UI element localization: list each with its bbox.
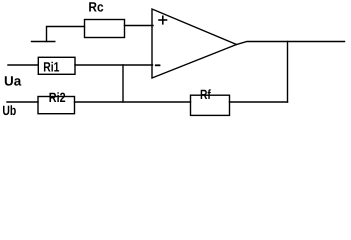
ground — [32, 41, 55, 43]
svg-text:Ri1: Ri1 — [43, 59, 59, 74]
wire — [230, 101, 288, 103]
wire — [75, 101, 191, 103]
resistor Rf — [191, 95, 230, 115]
wire — [237, 42, 345, 45]
wire — [7, 101, 38, 103]
svg-text:Ri2: Ri2 — [49, 90, 66, 105]
wire — [75, 64, 153, 66]
svg-text:Ub: Ub — [2, 103, 16, 118]
svg-text:Rf: Rf — [200, 87, 211, 102]
wire — [47, 27, 85, 42]
wire — [125, 25, 154, 27]
node junction — [122, 65, 124, 102]
op-amp U1 — [152, 9, 237, 78]
svg-text:Rc: Rc — [88, 0, 104, 15]
svg-text:Ua: Ua — [4, 73, 22, 88]
wire — [287, 42, 289, 103]
resistor Ri1 — [38, 57, 75, 74]
resistor Ri2 — [38, 97, 75, 114]
wire — [8, 64, 38, 66]
resistor Rc — [85, 20, 125, 38]
